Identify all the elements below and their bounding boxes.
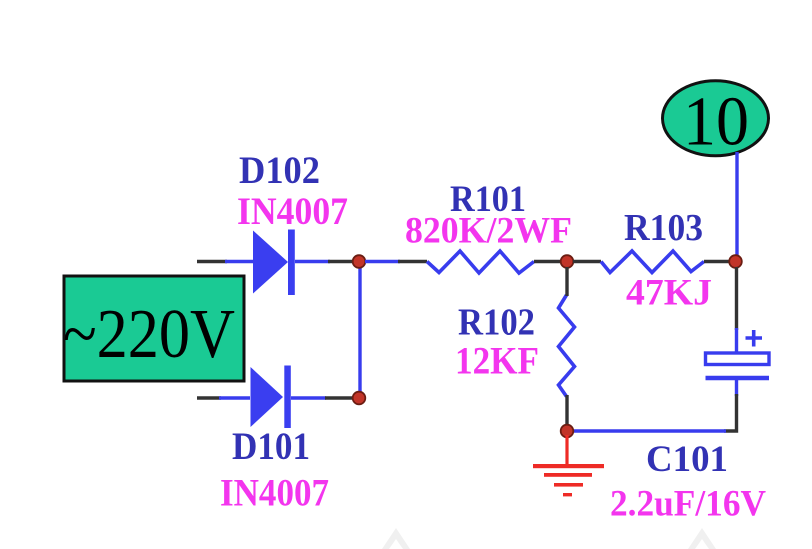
svg-text:D101: D101	[232, 424, 310, 468]
wire node C down to R102	[565, 267, 568, 296]
wire D102 to node A	[295, 260, 354, 263]
svg-text:10: 10	[683, 84, 749, 161]
node 10 bubble	[663, 81, 769, 161]
wire top-left input to D102	[197, 260, 254, 263]
svg-text:2.2uF/16V: 2.2uF/16V	[610, 484, 766, 525]
resistor R101	[427, 251, 534, 273]
capacitor C101 plus sign	[746, 330, 763, 347]
wire bubble 10 down to node D	[735, 152, 738, 258]
diode D102	[253, 230, 295, 296]
wire node A to node B vertical	[358, 265, 361, 395]
svg-text:IN4007: IN4007	[220, 472, 329, 515]
svg-text:D102: D102	[239, 148, 320, 192]
junction node B	[353, 392, 366, 405]
junction node A	[353, 255, 366, 268]
svg-text:R103: R103	[624, 207, 703, 249]
watermark chevron left	[382, 528, 410, 549]
wire R102 down to node E	[565, 395, 568, 427]
svg-text:R102: R102	[458, 302, 535, 344]
svg-text:12KF: 12KF	[455, 339, 539, 383]
diode D101	[251, 366, 291, 429]
wire node A to R101	[365, 260, 427, 263]
capacitor C101	[706, 353, 770, 378]
wire D101 to node B	[291, 396, 353, 399]
wire C101 to ground rail corner	[724, 394, 737, 431]
junction node E	[561, 425, 574, 438]
svg-text:C101: C101	[646, 438, 728, 479]
watermark chevron right	[688, 528, 716, 549]
resistor R102	[559, 295, 575, 397]
svg-text:IN4007: IN4007	[237, 190, 348, 233]
wire R103 to node D	[704, 260, 730, 263]
wire bottom-left input to D101	[197, 396, 250, 399]
wire R101 to node C	[534, 260, 561, 263]
AC source box ~220V	[63, 276, 244, 381]
svg-text:~220V: ~220V	[63, 296, 235, 373]
wire node C to R103	[573, 260, 601, 263]
resistor R103	[601, 251, 704, 273]
wire ground rail to node E	[573, 429, 726, 432]
svg-text:47KJ: 47KJ	[626, 272, 712, 313]
wire C101 bottom stub	[735, 380, 738, 396]
ground	[533, 435, 604, 496]
svg-text:820K/2WF: 820K/2WF	[405, 211, 572, 252]
junction node C	[561, 255, 574, 268]
junction node D	[729, 255, 742, 268]
wire node D down to C101	[735, 267, 738, 353]
